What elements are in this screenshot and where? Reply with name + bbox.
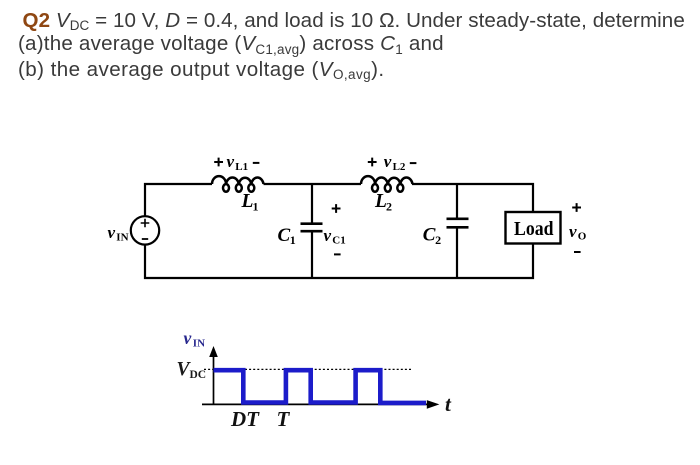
svg-text:t: t xyxy=(445,392,452,416)
svg-text:v: v xyxy=(384,152,392,171)
svg-text:v: v xyxy=(108,223,116,242)
svg-text:O: O xyxy=(578,231,587,243)
svg-text:C: C xyxy=(278,225,291,246)
svg-text:C1: C1 xyxy=(332,235,345,247)
svg-text:IN: IN xyxy=(193,338,205,350)
svg-text:1: 1 xyxy=(253,200,259,214)
svg-text:v: v xyxy=(324,226,332,245)
svg-text:Load: Load xyxy=(514,218,554,240)
svg-text:DC: DC xyxy=(190,369,207,381)
svg-text:L1: L1 xyxy=(235,161,248,173)
svg-text:IN: IN xyxy=(116,232,128,244)
svg-text:2: 2 xyxy=(386,200,392,214)
svg-text:1: 1 xyxy=(290,233,296,247)
svg-text:DT: DT xyxy=(230,407,260,431)
svg-text:C: C xyxy=(423,225,436,246)
svg-text:v: v xyxy=(227,152,235,171)
svg-text:v: v xyxy=(569,222,577,241)
svg-text:L2: L2 xyxy=(393,161,406,173)
svg-text:T: T xyxy=(277,407,291,431)
svg-text:v: v xyxy=(184,328,192,348)
svg-text:2: 2 xyxy=(435,233,441,247)
